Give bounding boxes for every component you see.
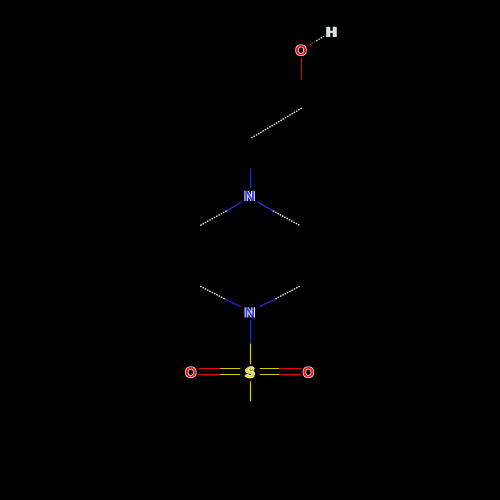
atom N1 (piperazine nitrogen, top) <box>244 191 254 201</box>
bond S1=O2 upper line (red half, oxygen side) <box>198 368 220 370</box>
bond S1=O2 lower line (red half, oxygen side) <box>198 374 220 376</box>
bond S1=O2 lower line (yellow half, sulfur side) <box>220 374 240 376</box>
bond N1-CUR (pale half, carbon side) <box>273 211 300 226</box>
atom H1 (hydroxyl hydrogen) <box>326 27 336 37</box>
atom O1 (hydroxyl oxygen) <box>295 44 306 56</box>
bond N1-CUL (pale half, carbon side) <box>200 211 226 226</box>
bond CLR-N2 (blue half) <box>259 299 275 307</box>
bond S1=O3 upper line (red half, oxygen side) <box>279 368 301 370</box>
bond O1-C2 (red half, oxygen side; carbon half invisible) <box>301 58 303 80</box>
bond N2-S (yellow half, sulfur side) <box>250 344 252 365</box>
bond N1-CUR (blue half) <box>257 202 273 211</box>
bond O1-H1 (pale half, hydrogen side) <box>316 36 324 41</box>
bond O1-H1 (red half, oxygen side) <box>310 41 317 45</box>
atom O2 (sulfonyl oxygen, left) <box>185 366 196 377</box>
atom N2 (piperazine nitrogen, bottom) <box>245 307 255 317</box>
atom O3 (sulfonyl oxygen, right) <box>303 366 314 377</box>
atom S1 (sulfonyl sulfur) <box>245 366 255 378</box>
bond N1-CUL (blue half) <box>227 202 242 211</box>
bond S1-C3 methyl (yellow half, sulfur side; carbon half invisible) <box>250 382 252 402</box>
bond CLR-N2 (pale half, carbon side) <box>275 286 300 299</box>
bond S1=O2 upper line (yellow half, sulfur side) <box>220 368 240 370</box>
bond S1=O3 lower line (yellow half, sulfur side) <box>260 374 280 376</box>
bond S1=O3 lower line (red half, oxygen side) <box>279 374 301 376</box>
bond C1-N1 (blue half, nitrogen side; carbon half invisible) <box>250 169 252 189</box>
bond C2-C1 (carbon-carbon, pale dashed) <box>251 108 301 138</box>
bond CLL-N2 (pale half, carbon side) <box>200 286 225 299</box>
bond CLL-N2 (blue half) <box>225 299 241 307</box>
bond N2-S (blue half, nitrogen side) <box>250 320 252 343</box>
bond S1=O3 upper line (yellow half, sulfur side) <box>260 368 280 370</box>
